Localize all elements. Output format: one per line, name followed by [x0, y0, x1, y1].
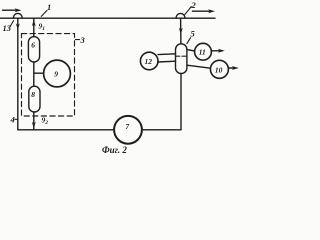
drive 12 — [140, 52, 158, 70]
svg-text:3: 3 — [80, 35, 86, 45]
svg-text:13: 13 — [3, 23, 12, 33]
vessel 6 — [28, 37, 39, 62]
separator 5 — [176, 44, 187, 74]
outlet flow arrow top-right — [193, 9, 216, 13]
leader for label 13 — [10, 21, 14, 27]
leader for label 3 — [75, 39, 79, 41]
crossover hump left (13) — [13, 13, 22, 18]
indicator 10 — [210, 60, 228, 78]
inlet flow arrow top-left — [3, 8, 22, 12]
svg-text:2: 2 — [191, 0, 197, 10]
svg-text:4: 4 — [10, 114, 15, 124]
svg-text:6: 6 — [31, 41, 35, 50]
pump 7 — [114, 116, 142, 144]
arrowhead down into separator 5 — [179, 28, 183, 35]
wire right vertical riser — [180, 74, 182, 130]
leader for label 4 — [15, 118, 18, 120]
wire branch into vessel 6 with up arrow (flow 9-1) — [33, 18, 35, 37]
vessel 8 — [29, 86, 40, 112]
leader for label 5 — [187, 38, 191, 44]
svg-text:8: 8 — [31, 90, 35, 99]
svg-text:10: 10 — [215, 65, 223, 74]
wire left bypass vertical — [17, 18, 19, 130]
separator 5 internal dashed divider — [176, 55, 187, 57]
dashed unit box 3 — [22, 34, 75, 116]
wire drive 12 to separator, lower — [158, 60, 176, 63]
wire vessel 6 to vessel 8 — [33, 62, 35, 86]
wire branch to sensor 9 — [34, 72, 44, 74]
outlet arrow from 11 — [211, 49, 224, 53]
leader for label 2 — [185, 7, 192, 15]
wire bottom pipe right part — [142, 129, 181, 131]
wire separator to indicator 11 — [187, 50, 195, 51]
indicator 11 — [195, 43, 212, 60]
svg-text:Фиг. 2: Фиг. 2 — [102, 145, 127, 155]
wire bottom pipe left part — [18, 129, 114, 131]
wire hump-2 down to separator 5 — [180, 18, 182, 44]
crossover hump right (2) — [176, 13, 185, 18]
svg-text:12: 12 — [145, 57, 153, 66]
wire vessel 8 down with arrow (flow 9-2) — [33, 112, 35, 130]
arrowhead down on left bypass — [16, 23, 20, 30]
svg-text:7: 7 — [125, 122, 129, 131]
outlet arrow from 10 — [228, 66, 238, 70]
svg-text:11: 11 — [199, 48, 206, 57]
sensor 9 — [44, 60, 71, 87]
svg-text:9: 9 — [54, 70, 58, 79]
wire main top pipe — [0, 17, 215, 19]
leader for label 1 — [41, 10, 47, 16]
wire separator to indicator 10 — [187, 65, 211, 68]
wire drive 12 to separator, upper — [158, 53, 176, 56]
svg-text:1: 1 — [47, 2, 51, 12]
